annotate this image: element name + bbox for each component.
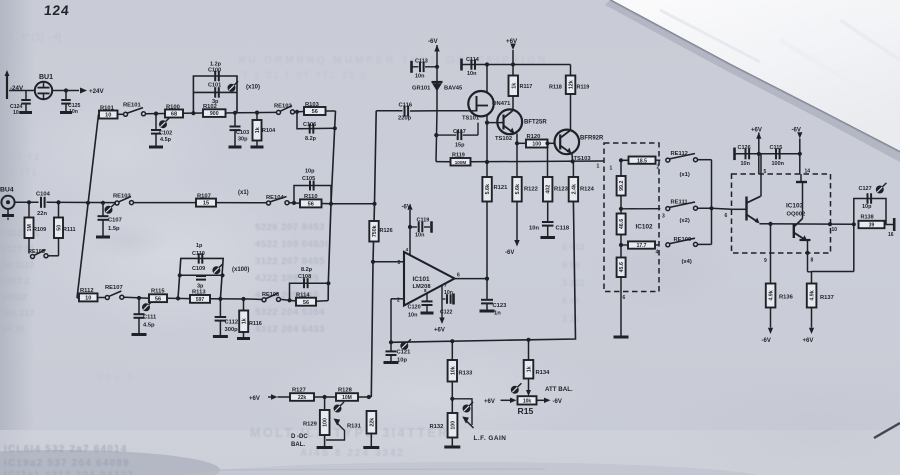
svg-text:C121: C121: [397, 350, 412, 356]
svg-text:R134: R134: [536, 370, 551, 376]
svg-text:+6V: +6V: [803, 338, 814, 344]
wire BU1 left: [9, 90, 35, 92]
relay contact RE111: [666, 200, 712, 225]
wire input diagonal: [77, 115, 99, 299]
svg-text:C118: C118: [556, 226, 570, 232]
capacitor C120: [408, 294, 434, 319]
svg-text:C101: C101: [208, 83, 221, 89]
resistor chain IC102 mid: [617, 214, 626, 258]
svg-text:9 45: 9 45: [562, 296, 580, 306]
svg-text:LM208: LM208: [413, 284, 432, 290]
relay contact RE101: [118, 103, 157, 117]
svg-text:10M: 10M: [342, 395, 352, 401]
svg-text:C113: C113: [415, 59, 428, 65]
wire output: [455, 277, 490, 281]
svg-text:(x4): (x4): [682, 259, 692, 265]
capacitor C123: [480, 279, 508, 317]
svg-text:1.5p: 1.5p: [108, 226, 120, 232]
transistor IC103 T1: [732, 196, 761, 223]
svg-text:RE104: RE104: [266, 195, 285, 201]
svg-text:1k: 1k: [255, 127, 261, 133]
svg-text:5: 5: [764, 169, 767, 175]
svg-text:-6V: -6V: [553, 399, 562, 405]
svg-text:8.2p: 8.2p: [301, 267, 313, 273]
resistor chain IC102 top: [617, 160, 626, 213]
svg-text:RE103: RE103: [113, 194, 132, 200]
capacitor C105 bypass: [292, 169, 331, 205]
resistor R127: [290, 388, 336, 402]
relay contact RE109: [666, 237, 712, 265]
svg-text:+6V: +6V: [484, 399, 495, 405]
svg-text:10p: 10p: [862, 204, 872, 210]
svg-text:17.7: 17.7: [637, 243, 647, 249]
IC103 dashed box: [725, 174, 831, 253]
svg-text:C107: C107: [108, 218, 122, 224]
svg-text:(x2): (x2): [680, 218, 690, 224]
bleed-through text: [2, 32, 585, 459]
potentiometer R129 trimmer: [303, 397, 345, 448]
svg-text:3: 3: [398, 260, 401, 266]
svg-text:C110: C110: [192, 251, 205, 257]
capacitor C101 trimmer: [193, 81, 238, 105]
svg-text:+6V: +6V: [751, 128, 762, 134]
svg-text:503 217: 503 217: [2, 308, 35, 318]
svg-text:10p: 10p: [305, 169, 315, 175]
svg-text:C102: C102: [159, 131, 172, 137]
svg-text:C105: C105: [302, 176, 315, 182]
svg-text:4.9k: 4.9k: [810, 290, 816, 300]
svg-text:9: 9: [764, 258, 767, 264]
svg-text:R132: R132: [430, 424, 444, 430]
resistor R110: [300, 194, 331, 208]
svg-text:4222 2: 4222 2: [2, 276, 30, 286]
capacitor C113: [412, 59, 440, 80]
resistor R107: [196, 194, 267, 207]
capacitor C118: [529, 202, 570, 238]
power -6V top: [428, 38, 440, 111]
capacitor C107 trimmer: [96, 201, 122, 237]
transistor IC103 T2: [794, 174, 814, 272]
svg-text:5322 204 5354: 5322 204 5354: [255, 307, 325, 318]
svg-text:1: 1: [610, 166, 613, 172]
relay contact RE105: [28, 249, 59, 259]
svg-text:R111: R111: [63, 227, 76, 233]
svg-text:RE102: RE102: [274, 104, 292, 110]
power rail IC103 +6V: [735, 128, 800, 175]
svg-text:6: 6: [725, 213, 728, 219]
capacitor C110 feedback loop: [178, 243, 223, 299]
resistor R122: [512, 177, 538, 202]
svg-text:56: 56: [308, 202, 314, 208]
svg-text:18.5: 18.5: [637, 158, 647, 164]
svg-text:C123: C123: [493, 303, 508, 309]
resistor R111: [54, 202, 76, 253]
wire IC102 tap2: [621, 209, 665, 220]
svg-text:R15: R15: [518, 406, 534, 416]
wire row1 after R102: [233, 111, 277, 115]
page edge mark bottom right: [130, 423, 900, 470]
relay contact RE108: [248, 292, 296, 302]
capacitor C104: [36, 192, 116, 218]
wire top rail: [462, 64, 571, 66]
wire emitter rail IC103: [760, 222, 854, 233]
svg-text:10n: 10n: [741, 161, 751, 167]
transistor TS102 BFT25R: [495, 109, 547, 142]
svg-text:.T 2 21 T 2T 3T1 T1 2: .T 2 21 T 2T 3T1 T1 2: [238, 70, 368, 80]
resistor R128: [336, 388, 371, 402]
capacitor C127 trimmer: [854, 183, 887, 225]
svg-text:C117: C117: [453, 129, 466, 135]
svg-text:C103: C103: [236, 130, 249, 136]
svg-text:22k: 22k: [369, 418, 375, 427]
capacitor C115: [770, 145, 785, 167]
folded page corner: [605, 0, 900, 162]
label x100: [232, 267, 249, 273]
svg-text:BAV45: BAV45: [444, 86, 463, 92]
svg-text:+24V: +24V: [89, 88, 104, 95]
svg-text:22n: 22n: [37, 211, 47, 217]
svg-text:-6V: -6V: [762, 338, 771, 344]
svg-text:6: 6: [457, 273, 460, 279]
svg-text:22k: 22k: [298, 395, 307, 401]
svg-text:RE108: RE108: [262, 292, 279, 298]
svg-text:L.F. GAIN: L.F. GAIN: [474, 435, 507, 442]
svg-text:1k: 1k: [242, 318, 248, 324]
svg-text:3 36: 3 36: [562, 314, 580, 324]
resistor R133: [448, 341, 474, 413]
svg-text:10n: 10n: [467, 71, 477, 77]
potentiometer R15: [484, 386, 573, 416]
svg-text:A3 3T1: A3 3T1: [2, 167, 38, 177]
svg-text:C111: C111: [143, 315, 157, 321]
svg-text:IC19a2 537 204 64099: IC19a2 537 204 64099: [4, 458, 130, 469]
svg-text:IC101: IC101: [413, 276, 430, 283]
svg-text:+6V: +6V: [434, 328, 445, 334]
svg-text:R123: R123: [554, 187, 569, 193]
resistor R138: [859, 215, 895, 239]
svg-text:4: 4: [656, 250, 659, 256]
svg-text:56: 56: [312, 109, 318, 115]
svg-text:10n: 10n: [415, 74, 425, 80]
resistor 18.5: [621, 157, 660, 171]
svg-text:C104: C104: [36, 192, 51, 198]
svg-text:14: 14: [805, 169, 811, 175]
bleed-through bottom-left rows: [4, 444, 134, 475]
svg-text:750k: 750k: [372, 225, 378, 237]
svg-text:100: 100: [323, 418, 329, 427]
svg-text:GR101: GR101: [412, 86, 431, 92]
svg-text:597: 597: [196, 297, 205, 303]
label D-DC BAL: [291, 434, 308, 448]
svg-text:220p: 220p: [398, 116, 412, 122]
svg-text:ATT BAL.: ATT BAL.: [545, 386, 573, 393]
svg-text:04 3122: 04 3122: [2, 260, 35, 270]
svg-text:R126: R126: [380, 228, 393, 234]
wire output vertical: [485, 62, 489, 278]
wire into IC102: [610, 158, 624, 171]
svg-text:S0a 3: S0a 3: [96, 372, 135, 384]
svg-text:16: 16: [888, 232, 894, 238]
svg-text:8 84: 8 84: [562, 260, 580, 270]
resistor chain IC102 bottom: [617, 258, 626, 302]
svg-text:R117: R117: [520, 84, 533, 90]
wire pin5: [761, 154, 767, 197]
svg-text:+6V: +6V: [249, 396, 260, 402]
svg-text:R136: R136: [779, 295, 794, 301]
wire bottom rail: [391, 339, 529, 343]
svg-text:(x100): (x100): [232, 267, 249, 273]
svg-text:R124: R124: [580, 187, 595, 193]
svg-text:12k: 12k: [569, 80, 575, 89]
svg-text:W31 T3: W31 T3: [2, 152, 40, 162]
diode GR101 BAV45: [412, 82, 463, 92]
svg-text:R104: R104: [262, 128, 276, 134]
svg-text:100M: 100M: [455, 160, 467, 165]
svg-text:64532: 64532: [2, 292, 27, 302]
svg-text:46.6: 46.6: [619, 219, 625, 229]
svg-text:15: 15: [203, 201, 209, 207]
capacitor C100 feedback loop: [193, 62, 237, 114]
relay contact RE107: [98, 285, 150, 300]
resistor R116: [237, 297, 262, 339]
capacitor C102 trimmer: [149, 112, 172, 148]
svg-text:(x1): (x1): [680, 172, 690, 178]
svg-text:10p: 10p: [397, 358, 407, 364]
svg-text:5.6k: 5.6k: [515, 184, 521, 194]
svg-text:4.5p: 4.5p: [143, 323, 155, 329]
svg-text:10n: 10n: [415, 233, 425, 239]
capacitor C126: [738, 145, 751, 167]
resistor R102: [203, 104, 237, 117]
label +24V with arrow: [80, 88, 104, 95]
wire output node: [812, 222, 856, 271]
op-amp IC101: [397, 247, 460, 306]
relay contact RE104: [266, 195, 300, 205]
svg-text:56: 56: [303, 300, 309, 306]
capacitor C121 trimmer: [384, 339, 412, 363]
svg-text:R137: R137: [820, 295, 834, 301]
wire feedback vertical: [326, 111, 337, 301]
svg-text:10: 10: [105, 113, 111, 119]
wire row2 input: [15, 200, 39, 204]
svg-text:C120: C120: [408, 305, 421, 311]
capacitor C106 bypass: [295, 110, 335, 142]
wire R124 to bottom rail: [526, 202, 575, 342]
svg-text:RE101: RE101: [123, 103, 142, 109]
svg-text:100n: 100n: [772, 161, 785, 167]
power +6V top: [506, 38, 518, 67]
resistor R136: [762, 284, 794, 345]
svg-text:R133: R133: [459, 371, 474, 377]
svg-text:3122 207 8455: 3122 207 8455: [255, 256, 325, 267]
svg-text:-6V: -6V: [402, 205, 411, 211]
svg-text:AI4S 8 224 3342: AI4S 8 224 3342: [300, 448, 405, 459]
power pin4 -6V: [402, 204, 413, 255]
svg-text:C108: C108: [298, 274, 311, 280]
svg-text:1p: 1p: [196, 243, 203, 249]
svg-text:R131: R131: [347, 424, 362, 430]
svg-text:56: 56: [155, 296, 161, 302]
svg-text:C112: C112: [225, 320, 239, 326]
power R122 -6V: [505, 202, 520, 257]
wire node vertical R126: [371, 111, 377, 397]
resistor R137: [803, 272, 834, 344]
svg-text:(x10): (x10): [246, 85, 260, 91]
resistor R126: [369, 221, 392, 242]
svg-text:8.2p: 8.2p: [305, 136, 317, 142]
svg-text:5.6k: 5.6k: [485, 184, 491, 194]
capacitor C117: [436, 123, 478, 149]
svg-text:R129: R129: [303, 422, 318, 428]
resistor R120: [517, 134, 555, 148]
svg-text:D -DC: D -DC: [291, 434, 308, 440]
svg-text:R121: R121: [494, 185, 509, 191]
label x10: [246, 85, 260, 91]
capacitor C125: [60, 91, 81, 116]
svg-text:100: 100: [532, 142, 541, 148]
resistor R134: [511, 340, 550, 396]
svg-text:124: 124: [43, 2, 70, 18]
svg-text:10: 10: [85, 296, 91, 302]
potentiometer R132 trimmer: [430, 399, 507, 447]
svg-text:ICL6I4 532 2a7 64014: ICL6I4 532 2a7 64014: [4, 444, 128, 455]
svg-text:IC102: IC102: [636, 224, 653, 231]
svg-text:C127: C127: [859, 186, 872, 192]
resistor R124: [569, 161, 595, 201]
svg-text:4.9k: 4.9k: [769, 290, 775, 300]
svg-text:BFR92R: BFR92R: [580, 136, 604, 142]
label x1: [238, 190, 249, 196]
svg-text:C126: C126: [738, 145, 751, 151]
svg-text:BU4: BU4: [0, 187, 14, 194]
svg-text:1: 1: [597, 164, 600, 170]
svg-text:2.4k: 2.4k: [571, 184, 577, 194]
resistor R109: [25, 202, 47, 253]
power +6V feed: [249, 394, 290, 402]
svg-text:C115: C115: [770, 145, 783, 151]
svg-text:! , t* (1) .-4|: ! , t* (1) .-4|: [10, 32, 61, 43]
svg-text:RE109: RE109: [674, 237, 693, 243]
relay contact RE103: [113, 194, 196, 206]
wire BU1 right: [52, 88, 79, 92]
capacitor C112: [213, 299, 238, 337]
svg-text:R109: R109: [33, 227, 46, 233]
capacitor C108 bypass: [287, 267, 328, 302]
svg-text:1n: 1n: [494, 311, 501, 317]
wire pin3: [373, 261, 404, 263]
resistor R114: [296, 293, 328, 306]
resistor R101: [99, 106, 118, 119]
wire row1 to loop: [183, 111, 203, 115]
wire pin9 R136 drop: [764, 224, 771, 284]
page number 124: [43, 2, 70, 18]
svg-text:1k: 1k: [527, 366, 533, 372]
capacitor C103: [229, 113, 250, 147]
relay contact RE102: [274, 104, 304, 115]
capacitor C111 trimmer: [132, 296, 157, 335]
transistor TS101 ON471: [437, 91, 511, 122]
svg-text:8: 8: [424, 288, 427, 293]
svg-text:8: 8: [811, 258, 814, 264]
wire row2 to node: [331, 203, 375, 205]
svg-text:RE112: RE112: [671, 151, 688, 157]
svg-text:6: 6: [623, 295, 626, 301]
capacitor C114: [462, 57, 480, 77]
power -6V IC103: [792, 128, 811, 175]
svg-text:15p: 15p: [455, 143, 465, 149]
svg-text:3 122: 3 122: [562, 278, 585, 288]
resistor R100: [156, 105, 183, 118]
svg-text:68: 68: [171, 112, 177, 118]
transistor TS103 BFR92R: [555, 130, 605, 170]
connector BU1: [35, 74, 53, 99]
resistor R119 100M: [436, 153, 471, 166]
resistor R117: [509, 65, 571, 111]
svg-text:10k: 10k: [523, 398, 532, 404]
svg-text:BU1: BU1: [39, 74, 53, 81]
connector BU1 terminal bar: [5, 70, 10, 99]
svg-text:R118: R118: [549, 85, 562, 91]
resistor R121: [482, 177, 508, 202]
svg-text:R116: R116: [249, 321, 262, 327]
ground IC102: [614, 292, 629, 338]
svg-text:TS101: TS101: [462, 116, 480, 122]
svg-text:IC103: IC103: [786, 203, 803, 210]
svg-text:44 20: 44 20: [2, 324, 25, 334]
resistor R104: [251, 113, 277, 147]
svg-text:C122: C122: [440, 310, 453, 316]
capacitor C124: [10, 91, 32, 117]
svg-text:900: 900: [210, 111, 219, 117]
svg-text:10n: 10n: [529, 226, 539, 232]
svg-text:BAL.: BAL.: [291, 442, 305, 448]
svg-text:RE107: RE107: [105, 285, 123, 291]
capacitor C116: [376, 103, 437, 122]
svg-text:10n: 10n: [13, 110, 22, 116]
svg-text:C119: C119: [417, 218, 430, 224]
capacitor C109 trimmer: [178, 264, 225, 290]
svg-text:10: 10: [832, 227, 838, 233]
svg-text:R119: R119: [577, 85, 590, 91]
svg-text:30p: 30p: [238, 137, 248, 143]
svg-text:TS103: TS103: [574, 156, 592, 162]
svg-text:4522 109 0453I: 4522 109 0453I: [255, 239, 328, 250]
svg-text:ON471: ON471: [492, 101, 511, 107]
svg-text:4312 204 6433: 4312 204 6433: [255, 324, 325, 335]
connector BU4: [0, 187, 15, 221]
svg-text:99.2: 99.2: [619, 181, 625, 191]
svg-text:-6V: -6V: [428, 38, 439, 45]
resistor 17.7: [621, 241, 660, 255]
wire rail 100M: [471, 159, 605, 163]
svg-text:45.6: 45.6: [619, 262, 625, 272]
capacitor C119: [408, 218, 432, 239]
svg-text:BFT25R: BFT25R: [524, 120, 547, 126]
svg-text:39: 39: [869, 223, 875, 229]
wire TS101 source to TS102: [487, 122, 504, 124]
svg-text:ICI7a1 4312 204 84432: ICI7a1 4312 204 84432: [4, 470, 134, 475]
resistor R113: [190, 290, 248, 304]
resistor R131: [347, 411, 379, 448]
svg-text:3: 3: [662, 214, 665, 220]
svg-text:C116: C116: [399, 103, 413, 109]
svg-text:100: 100: [451, 421, 457, 430]
svg-text:10n: 10n: [69, 109, 78, 115]
svg-text:C114: C114: [466, 57, 480, 63]
wire merge vertical: [709, 160, 731, 245]
svg-text:(x1): (x1): [238, 190, 249, 196]
svg-text:-6V: -6V: [505, 250, 514, 256]
